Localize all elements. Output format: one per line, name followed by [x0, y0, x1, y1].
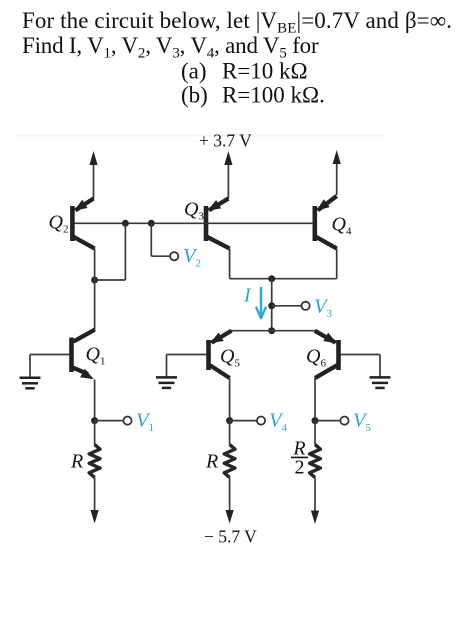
wire V1 node to terminal	[95, 420, 124, 422]
junction emitter bus center	[268, 327, 275, 334]
wire collector bus Q3-Q4	[230, 278, 337, 280]
ground at Q6 base	[370, 376, 391, 379]
-5.7V supply arrow (left)	[91, 510, 99, 524]
transistor Q1	[72, 330, 95, 380]
+3.7V supply arrow above Q3	[227, 161, 229, 199]
label R/2	[291, 438, 308, 479]
wire V5 node to terminal	[315, 420, 341, 422]
junction V4 node	[226, 417, 233, 424]
+3.7V supply arrow above Q2	[93, 161, 95, 199]
wire V5 node to resistor R/2	[314, 421, 316, 445]
wire Q6 base to ground	[341, 354, 381, 356]
resistor R (left)	[89, 445, 100, 478]
wire emitter bus to Q5 and Q6	[231, 330, 315, 332]
junction on base bus (to Q2 collector)	[122, 220, 129, 227]
junction collector bus center	[268, 275, 275, 282]
wire diode-connection from base bus to Q2 collector	[124, 223, 126, 280]
wire Q3 collector down	[229, 249, 231, 279]
terminal circle V2	[170, 252, 178, 260]
-5.7V supply arrow (middle)	[226, 510, 234, 524]
wire center column down to emitter bus	[271, 279, 273, 331]
transistor Q6	[315, 331, 339, 378]
terminal circle V5	[340, 417, 348, 425]
ground at Q5 base	[156, 376, 177, 379]
junction V1 node	[91, 417, 98, 424]
junction Q2 collector node	[91, 277, 98, 284]
wire Q1 emitter down to V1 node	[94, 380, 96, 421]
wire V4 node to terminal	[230, 420, 257, 422]
faint separator line	[15, 135, 384, 137]
svg-text:I: I	[243, 285, 252, 307]
terminal circle V4	[257, 417, 265, 425]
svg-text:− 5.7 V: − 5.7 V	[204, 527, 257, 547]
svg-text:+ 3.7 V: + 3.7 V	[199, 131, 252, 151]
wire V4 node to resistor R	[229, 421, 231, 445]
wire Q1 base to ground	[30, 354, 70, 356]
-5.7V supply arrow (right)	[311, 511, 319, 525]
current arrow I	[260, 287, 263, 317]
wire Q5 base to ground	[167, 354, 207, 356]
transistor Q2	[72, 199, 94, 249]
wire resistor R to -5.7V arrow	[94, 478, 96, 513]
svg-text:R: R	[70, 451, 83, 473]
wire V1 node to resistor R	[94, 421, 96, 445]
wire resistor to -5.7V arrow (right)	[314, 478, 316, 514]
transistor Q3	[206, 199, 230, 249]
svg-text:2: 2	[295, 457, 305, 479]
svg-text:(b): (b)	[181, 83, 208, 108]
transistor Q5	[209, 331, 232, 378]
wire V3 node to terminal	[272, 305, 302, 307]
resistor R (middle)	[224, 445, 235, 478]
wire from base bus down to V2 terminal	[150, 223, 152, 256]
ground at Q1 base	[20, 377, 41, 380]
svg-text:R=100 kΩ.: R=100 kΩ.	[222, 83, 325, 108]
resistor R/2 (right)	[310, 445, 321, 478]
wire Q5 collector down to V4 node	[229, 378, 231, 421]
svg-text:R=10 kΩ: R=10 kΩ	[222, 59, 308, 84]
terminal circle V1	[123, 417, 131, 425]
junction V5 node	[312, 417, 319, 424]
svg-text:R: R	[205, 451, 218, 473]
wire Q4 collector down	[336, 249, 338, 279]
wire resistor to -5.7V arrow (middle)	[229, 478, 231, 513]
wire Q6 collector down to V5 node	[314, 378, 316, 421]
junction V3 node	[268, 302, 275, 309]
+3.7V supply arrow above Q4	[336, 160, 338, 195]
terminal circle V3	[302, 302, 310, 310]
transistor Q4	[315, 196, 337, 249]
svg-text:(a): (a)	[181, 59, 207, 84]
svg-text:Find I, V1, V2, V3, V4, and V5: Find I, V1, V2, V3, V4, and V5 for	[22, 33, 319, 62]
wire base bus connecting Q2, Q3, Q4 bases	[74, 222, 312, 224]
junction on base bus (to V2 terminal)	[148, 220, 155, 227]
wire Q2 collector down to Q1 collector	[94, 249, 96, 331]
